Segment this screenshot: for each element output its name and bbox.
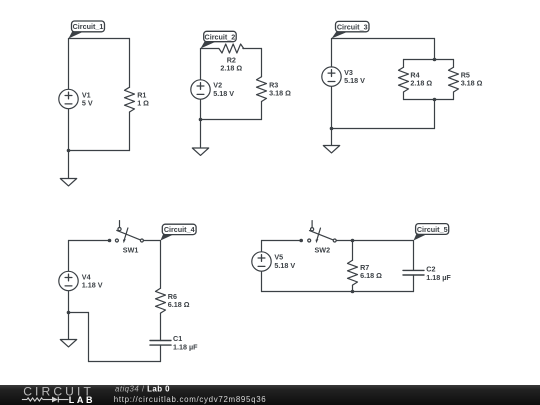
label callout Circuit_5	[414, 224, 449, 241]
node: circuit1 ground junction	[67, 149, 71, 153]
svg-text:SW2: SW2	[315, 246, 331, 255]
label C1 value	[173, 334, 198, 351]
wire: R4 stubs	[403, 60, 405, 100]
label R3 value	[269, 80, 291, 97]
wire: circuit3 right lower drop	[434, 100, 436, 129]
ground: circuit3	[323, 129, 339, 153]
svg-text:Circuit_1: Circuit_1	[73, 22, 104, 31]
voltage source V2	[191, 80, 210, 99]
label callout Circuit_1	[69, 21, 105, 39]
svg-text:6.18 Ω: 6.18 Ω	[168, 300, 190, 309]
wire: circuit5 left lower	[261, 271, 263, 291]
wire: circuit4 node stub	[69, 312, 89, 314]
resistor R3	[257, 77, 267, 102]
wire: R7 branch upper	[352, 241, 354, 261]
wire: circuit3 parallel top rail	[404, 59, 454, 61]
svg-text:1 Ω: 1 Ω	[137, 99, 149, 108]
wire: C1 down	[160, 345, 162, 361]
voltage source V5	[252, 252, 271, 271]
label V5 value	[274, 253, 295, 270]
wire: circuit2 right lower	[261, 102, 263, 120]
node: circuit5 R7 bottom junction	[351, 290, 355, 294]
wire: circuit4 bottom riser	[88, 313, 90, 362]
svg-text:1.18 µF: 1.18 µF	[426, 273, 451, 282]
wire: circuit5 top left	[262, 240, 302, 242]
node: circuit3 parallel top junction	[433, 58, 437, 62]
svg-text:Circuit_4: Circuit_4	[164, 225, 195, 234]
resistor R7	[348, 260, 358, 285]
wire: circuit3 parallel bottom rail	[404, 99, 454, 101]
label V1 value	[82, 90, 93, 107]
label R2 value	[220, 56, 242, 73]
svg-text:5.18 V: 5.18 V	[274, 261, 295, 270]
wire: circuit1 top	[69, 38, 130, 40]
svg-text:Circuit_3: Circuit_3	[337, 22, 368, 31]
wire: circuit4 left upper	[68, 241, 70, 272]
wire: circuit4 right branch	[160, 241, 162, 289]
wire: circuit1 right lower	[129, 112, 131, 151]
svg-text:LAB: LAB	[69, 395, 95, 405]
wire: circuit3 left lower	[331, 86, 333, 128]
wire: circuit2 bottom	[201, 119, 262, 121]
svg-text:1.18 µF: 1.18 µF	[173, 342, 198, 351]
node: circuit2 ground junction	[199, 118, 203, 122]
svg-text:6.18 Ω: 6.18 Ω	[360, 271, 382, 280]
voltage source V3	[322, 67, 341, 86]
wire: circuit4 top right	[143, 240, 160, 242]
ground: circuit1	[60, 151, 76, 186]
label C2 value	[426, 265, 451, 282]
label R7 value	[360, 263, 382, 280]
resistor R2	[219, 44, 244, 53]
ground: circuit2	[192, 120, 208, 156]
svg-text:5.18 V: 5.18 V	[213, 89, 234, 98]
wire: circuit5 left upper	[261, 241, 263, 252]
label V4 value	[82, 272, 103, 289]
wire: circuit2 right upper	[261, 49, 263, 77]
label R4 value	[410, 71, 432, 88]
wire: circuit4 left lower	[68, 291, 70, 313]
label callout Circuit_3	[332, 21, 370, 38]
logo resistor-diode line	[22, 397, 69, 403]
label R1 value	[137, 90, 149, 107]
switch SW1	[108, 221, 144, 244]
wire: circuit2 left lower	[200, 99, 202, 119]
svg-text:1.18 V: 1.18 V	[82, 281, 103, 290]
svg-text:3.18 Ω: 3.18 Ω	[269, 88, 291, 97]
svg-text:5.18 V: 5.18 V	[344, 76, 365, 85]
wire: circuit1 left lower	[68, 109, 70, 151]
wire: circuit4 top left	[69, 240, 110, 242]
wire: circuit3 left upper	[331, 39, 333, 67]
resistor R5	[449, 67, 459, 92]
label callout Circuit_2	[201, 31, 237, 48]
wire: circuit5 right branch lower	[413, 275, 415, 292]
wire: circuit3 bottom	[332, 128, 435, 130]
resistor R6	[156, 288, 166, 313]
node: circuit4 ground junction	[67, 311, 71, 315]
wire: circuit5 bottom	[262, 291, 414, 293]
wire: circuit5 top right	[336, 240, 413, 242]
svg-text:http://circuitlab.com/cydv72m8: http://circuitlab.com/cydv72m895q36	[114, 395, 267, 404]
capacitor C2	[403, 270, 424, 275]
node: circuit5 R7 top junction	[351, 239, 355, 243]
switch SW2	[299, 221, 336, 244]
wire: R6 to C1	[160, 313, 162, 340]
svg-text:3.18 Ω: 3.18 Ω	[461, 79, 483, 88]
wire: circuit3 top	[332, 38, 435, 40]
node: circuit3 ground junction	[330, 127, 334, 131]
svg-text:2.18 Ω: 2.18 Ω	[410, 79, 432, 88]
svg-text:5 V: 5 V	[82, 99, 93, 108]
wire: circuit1 left upper	[68, 39, 70, 90]
wire: circuit5 right branch upper	[413, 241, 415, 271]
voltage source V1	[59, 89, 78, 108]
label callout Circuit_4	[161, 224, 197, 240]
svg-text:Circuit_2: Circuit_2	[205, 32, 236, 41]
ground: circuit4	[60, 313, 76, 347]
svg-text:SW1: SW1	[123, 246, 139, 255]
svg-text:2.18 Ω: 2.18 Ω	[220, 64, 242, 73]
node: circuit3 parallel bottom junction	[433, 98, 437, 102]
wire: circuit2 top left	[201, 48, 219, 50]
label V3 value	[344, 68, 365, 85]
resistor R1	[125, 87, 135, 112]
label R5 value	[461, 71, 483, 88]
label V2 value	[213, 81, 234, 98]
wire: R5 stubs	[453, 60, 455, 100]
voltage source V4	[59, 271, 78, 290]
capacitor C1	[150, 341, 171, 346]
wire: circuit1 bottom	[69, 150, 130, 152]
wire: circuit3 right drop	[434, 39, 436, 60]
wire: circuit2 left upper	[200, 49, 202, 80]
label R6 value	[168, 292, 190, 309]
wire: R7 branch lower	[352, 285, 354, 291]
svg-text:atiq34 / Lab 0: atiq34 / Lab 0	[115, 384, 170, 393]
wire: circuit1 right upper	[129, 39, 131, 88]
resistor R4	[399, 67, 409, 92]
svg-text:Circuit_5: Circuit_5	[417, 225, 448, 234]
wire: circuit4 bottom	[89, 361, 161, 363]
wire: circuit2 top right	[243, 48, 262, 50]
